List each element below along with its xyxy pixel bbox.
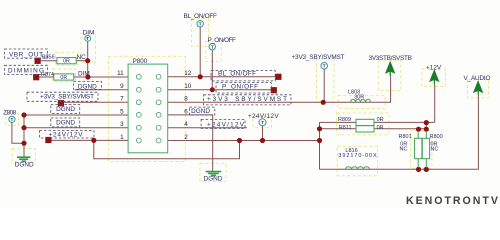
svg-text:5: 5 bbox=[120, 108, 124, 115]
svg-text:DGND: DGND bbox=[15, 161, 34, 168]
svg-text:7: 7 bbox=[120, 96, 124, 103]
svg-text:+3V3_SBY/SVMST: +3V3_SBY/SVMST bbox=[292, 54, 345, 61]
svg-text:P_ON/OFF: P_ON/OFF bbox=[222, 84, 258, 91]
svg-text:R856: R856 bbox=[42, 54, 55, 60]
svg-text:VBR_OUT: VBR_OUT bbox=[9, 51, 43, 58]
svg-text:9: 9 bbox=[120, 83, 124, 90]
svg-text:T: T bbox=[10, 117, 13, 122]
svg-text:NC: NC bbox=[431, 146, 439, 152]
svg-text:6: 6 bbox=[184, 108, 188, 115]
svg-text:+12V: +12V bbox=[426, 65, 442, 72]
svg-text:11: 11 bbox=[117, 70, 124, 77]
svg-text:R811: R811 bbox=[339, 125, 352, 131]
svg-text:T: T bbox=[86, 36, 89, 41]
svg-text:12: 12 bbox=[184, 70, 192, 77]
svg-text:4: 4 bbox=[184, 121, 188, 128]
svg-text:0R: 0R bbox=[377, 117, 384, 123]
svg-text:P_ON/OFF: P_ON/OFF bbox=[207, 37, 236, 44]
svg-text:1: 1 bbox=[120, 134, 124, 141]
svg-text:R874: R874 bbox=[41, 72, 54, 78]
svg-text:3: 3 bbox=[120, 121, 124, 128]
svg-text:0R: 0R bbox=[377, 125, 384, 131]
svg-text:T: T bbox=[199, 21, 202, 26]
svg-text:Z808: Z808 bbox=[3, 110, 16, 117]
svg-text:DGND: DGND bbox=[204, 176, 223, 183]
svg-text:NC: NC bbox=[76, 54, 86, 61]
svg-text:30R: 30R bbox=[354, 95, 364, 101]
svg-text:P800: P800 bbox=[133, 58, 148, 65]
svg-text:3V3STB/SVSTB: 3V3STB/SVSTB bbox=[369, 55, 412, 62]
svg-text:R809: R809 bbox=[338, 117, 351, 123]
svg-text:0R: 0R bbox=[60, 75, 67, 81]
svg-text:T: T bbox=[261, 120, 264, 125]
svg-text:T: T bbox=[323, 64, 326, 69]
svg-text:10: 10 bbox=[184, 83, 192, 90]
svg-text:DIM: DIM bbox=[78, 70, 90, 77]
svg-text:BL_ON/OFF: BL_ON/OFF bbox=[218, 71, 256, 78]
svg-text:2: 2 bbox=[184, 134, 188, 141]
svg-text:DGND: DGND bbox=[56, 106, 75, 113]
svg-text:R801: R801 bbox=[399, 134, 412, 140]
svg-text:DGND: DGND bbox=[56, 120, 75, 127]
svg-text:DGND: DGND bbox=[78, 83, 97, 90]
svg-text:T: T bbox=[211, 44, 214, 49]
svg-text:0R: 0R bbox=[63, 59, 70, 65]
svg-text:V_AUDIO: V_AUDIO bbox=[464, 75, 491, 82]
svg-text:DGND: DGND bbox=[191, 108, 210, 115]
svg-text:KENOTRONTV: KENOTRONTV bbox=[406, 195, 499, 207]
svg-text:+24V/12V: +24V/12V bbox=[248, 113, 279, 120]
svg-text:+24V/12V: +24V/12V bbox=[49, 132, 84, 139]
svg-text:NC: NC bbox=[400, 146, 408, 152]
svg-text:BL_ON/OFF: BL_ON/OFF bbox=[183, 13, 217, 20]
svg-text:R800: R800 bbox=[430, 134, 443, 140]
svg-text:DIM: DIM bbox=[83, 30, 95, 37]
svg-text:+3V3_SBY/SVMST: +3V3_SBY/SVMST bbox=[40, 94, 94, 101]
svg-text:392170-00X: 392170-00X bbox=[338, 153, 377, 159]
svg-text:DIMMING: DIMMING bbox=[8, 68, 44, 75]
svg-text:8: 8 bbox=[184, 96, 188, 103]
